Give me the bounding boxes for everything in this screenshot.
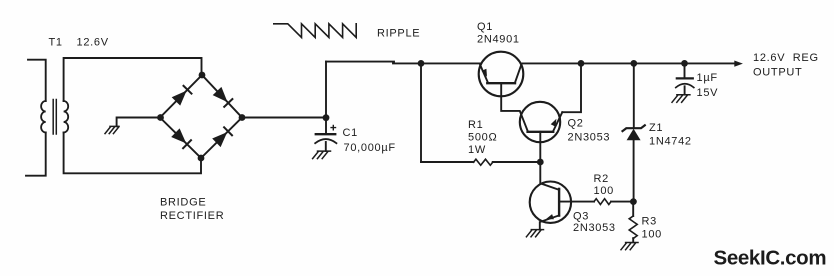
svg-text:100: 100 xyxy=(642,229,662,241)
svg-text:OUTPUT: OUTPUT xyxy=(753,66,802,78)
wire output capacitor branch xyxy=(684,63,686,78)
svg-text:70,000µF: 70,000µF xyxy=(344,142,396,154)
transformer T1 secondary winding xyxy=(64,101,69,133)
wire R2 to zener node xyxy=(611,201,633,203)
wire Q3 base lead xyxy=(559,201,594,203)
transistor Q2 base bar xyxy=(528,131,554,133)
node dot zener R2 R3 xyxy=(630,198,637,205)
wire top rail left section xyxy=(326,61,394,63)
node dot rail Q2 emitter xyxy=(578,60,585,67)
svg-text:100: 100 xyxy=(594,185,614,197)
svg-text:R3: R3 xyxy=(642,216,657,228)
svg-text:Q2: Q2 xyxy=(568,117,584,129)
resistor R2 xyxy=(594,199,611,205)
svg-text:C1: C1 xyxy=(343,127,358,139)
node dot bridge top xyxy=(199,72,206,79)
capacitor output plates xyxy=(677,77,693,79)
svg-text:12.6V: 12.6V xyxy=(77,36,109,48)
wire bridge right node to C1 junction xyxy=(242,117,326,119)
ground at C1 xyxy=(313,151,331,159)
capacitor C1 top lead xyxy=(325,118,327,134)
svg-text:R1: R1 xyxy=(468,119,483,131)
transistor Q1 emitter arrow xyxy=(482,69,488,77)
ground at R3 xyxy=(621,243,638,250)
ripple waveform symbol xyxy=(274,24,356,38)
svg-text:RECTIFIER: RECTIFIER xyxy=(160,210,224,222)
transistor Q2 emitter lead xyxy=(553,112,562,131)
bridge diode D2 top-right xyxy=(213,87,228,102)
transistor Q1 base bar xyxy=(487,82,515,84)
wire R3 top lead xyxy=(632,202,634,216)
transistor Q2 emitter arrow xyxy=(551,119,557,127)
resistor R1 xyxy=(474,159,493,165)
node dot bridge left xyxy=(157,114,164,121)
transistor Q1 circle xyxy=(479,52,524,97)
svg-text:Q1: Q1 xyxy=(477,21,493,33)
transformer T1 primary winding xyxy=(41,101,46,133)
svg-text:Q3: Q3 xyxy=(573,211,589,223)
wire R1 right lead to Q2 base node xyxy=(493,161,541,163)
bridge diode D1 left-top xyxy=(172,91,187,106)
wire R1 left lead xyxy=(421,161,474,163)
svg-text:R2: R2 xyxy=(594,173,609,185)
svg-text:SeekIC.com: SeekIC.com xyxy=(714,247,827,270)
wire zener branch from rail xyxy=(633,63,635,128)
svg-text:500Ω: 500Ω xyxy=(468,132,497,144)
wire riser C1 junction to top rail xyxy=(325,62,327,118)
svg-text:2N3053: 2N3053 xyxy=(568,132,611,144)
node dot bridge bottom xyxy=(198,155,205,162)
capacitor C1 plates xyxy=(316,133,335,135)
zener Z1 cathode bar xyxy=(623,125,645,131)
transistor Q3 emitter arrow xyxy=(546,214,554,219)
zener Z1 triangle xyxy=(627,129,641,140)
svg-text:1µF: 1µF xyxy=(697,72,718,84)
bridge diamond edge left-top xyxy=(160,75,202,118)
resistor R3 xyxy=(629,216,637,239)
svg-text:RIPPLE: RIPPLE xyxy=(377,28,420,40)
bridge diode D4 bottom-right xyxy=(212,132,227,147)
node dot C1 junction xyxy=(323,114,330,121)
node dot rail output cap branch xyxy=(681,60,688,67)
wire top rail to Q1 emitter xyxy=(393,62,480,64)
wire T1 primary top lead xyxy=(28,60,46,101)
node dot bridge right xyxy=(239,114,246,121)
wire top rail Q1 collector to output arrow xyxy=(523,62,737,64)
svg-text:1N4742: 1N4742 xyxy=(649,136,692,148)
wire R1 branch vertical from rail xyxy=(420,63,422,162)
ground at bridge xyxy=(105,126,119,133)
bridge diamond edge top-right xyxy=(202,75,242,118)
wire bridge left node to chassis ground xyxy=(117,118,160,127)
transistor Q3 base bar xyxy=(558,189,560,216)
svg-text:1W: 1W xyxy=(468,144,486,156)
transistor Q2 circle xyxy=(520,102,560,142)
svg-text:15V: 15V xyxy=(697,87,719,99)
svg-text:T1: T1 xyxy=(49,36,63,48)
output arrowhead xyxy=(734,61,743,67)
svg-text:Z1: Z1 xyxy=(649,122,663,134)
wire T1 secondary top lead to bridge top node xyxy=(64,58,202,101)
transistor Q1 emitter lead xyxy=(480,65,488,83)
wire R3 bottom lead xyxy=(632,238,634,242)
svg-text:BRIDGE: BRIDGE xyxy=(160,196,206,208)
node dot rail zener branch xyxy=(630,60,637,67)
ground at output capacitor xyxy=(672,95,690,103)
capacitor output bottom lead xyxy=(684,86,686,94)
plus sign at C1 xyxy=(330,125,336,131)
transistor Q1 collector lead xyxy=(515,64,522,83)
svg-text:2N3053: 2N3053 xyxy=(573,222,616,234)
svg-text:12.6V REG: 12.6V REG xyxy=(753,52,819,64)
wire Q1 base to Q2 collector xyxy=(501,83,528,131)
wire T1 primary bottom lead xyxy=(26,133,46,176)
wire Q2 base down to R1 node and Q3 collector xyxy=(540,132,559,190)
transformer T1 core xyxy=(53,100,56,135)
wire zener anode to R2 R3 node xyxy=(633,140,635,202)
node dot rail R1 branch xyxy=(418,60,425,67)
wire Q2 emitter to rail xyxy=(562,63,581,112)
svg-text:2N4901: 2N4901 xyxy=(477,34,520,46)
bridge diamond edge left-bottom xyxy=(160,118,201,159)
ground at Q3 emitter xyxy=(526,230,543,237)
transistor Q3 emitter lead xyxy=(540,215,559,229)
node dot R1 Q2 base xyxy=(537,159,544,166)
bridge diode D3 left-bottom xyxy=(171,128,186,143)
transistor Q3 circle xyxy=(530,182,571,223)
bridge diamond edge bottom-right xyxy=(201,118,242,159)
capacitor C1 bottom lead xyxy=(325,142,327,151)
wire T1 secondary bottom lead to bridge bottom node xyxy=(64,133,201,174)
